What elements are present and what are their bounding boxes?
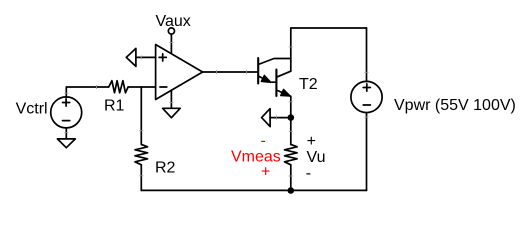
wire collector riser — [290, 28, 292, 71]
wire R1 to op-amp inverting input — [128, 86, 156, 88]
ground below Vctrl — [57, 128, 75, 148]
transistor Q1 base bar — [257, 58, 259, 84]
transistor Q2 emitter — [276, 90, 290, 96]
svg-text:+: + — [261, 163, 270, 180]
svg-text:-: - — [261, 132, 266, 149]
transistor Q1 emitter arrow — [261, 75, 271, 82]
svg-text:R1: R1 — [104, 98, 125, 115]
wire Vctrl top to R1 — [66, 87, 108, 98]
svg-text:Vu: Vu — [307, 149, 326, 166]
Vpwr minus sign — [363, 104, 370, 106]
svg-text:Vaux: Vaux — [156, 13, 191, 30]
resistor Vu — [285, 144, 298, 164]
wire port arrow to emitter junction — [270, 117, 291, 119]
voltage source Vctrl — [51, 97, 82, 128]
transistor Q1 emitter — [258, 76, 276, 82]
pin tick marks — [64, 42, 368, 176]
wire port arrow to plus input — [136, 56, 156, 58]
resistor R2 — [135, 144, 148, 164]
wire emitter down to junction and Vu — [290, 96, 292, 144]
wire op-amp output to T2 base — [203, 71, 259, 73]
junction emitter node — [288, 114, 295, 121]
wire bottom rail — [141, 189, 366, 191]
svg-text:+: + — [307, 133, 316, 150]
wire Vpwr top — [366, 28, 368, 81]
wire R2 to bottom rail — [140, 165, 142, 191]
wire feedback node down to R2 — [140, 87, 142, 145]
svg-text:Vpwr (55V 100V): Vpwr (55V 100V) — [394, 97, 516, 114]
transistor Q2 collector — [276, 71, 290, 77]
wire Vaux to op-amp — [170, 34, 172, 53]
op-amp minus input symbol — [160, 86, 167, 88]
svg-text:R2: R2 — [155, 160, 176, 177]
Vctrl minus sign — [63, 120, 70, 122]
input port arrow at emitter node — [262, 109, 271, 127]
svg-text:-: - — [306, 165, 311, 182]
ground below op-amp — [163, 90, 181, 118]
voltage source Vpwr — [351, 81, 382, 112]
resistor R1 — [109, 81, 128, 93]
input port arrow at plus input — [126, 48, 136, 66]
transistor Q2 emitter arrow — [281, 89, 291, 96]
wire top rail — [291, 27, 367, 29]
svg-text:Vctrl: Vctrl — [16, 101, 48, 118]
Vctrl plus sign — [63, 99, 70, 106]
svg-text:Vmeas: Vmeas — [231, 149, 281, 166]
svg-text:T2: T2 — [299, 76, 318, 93]
transistor Q1 collector — [258, 59, 291, 65]
junction bottom rail — [288, 187, 295, 194]
wire Vpwr bottom — [366, 113, 368, 191]
Vpwr plus sign — [363, 84, 370, 91]
op-amp plus input symbol — [159, 54, 166, 61]
terminal Vaux — [168, 28, 174, 34]
op-amp U1 — [156, 45, 203, 100]
transistor Q2 base bar — [275, 70, 277, 97]
wire Vu to bottom rail — [290, 165, 292, 191]
